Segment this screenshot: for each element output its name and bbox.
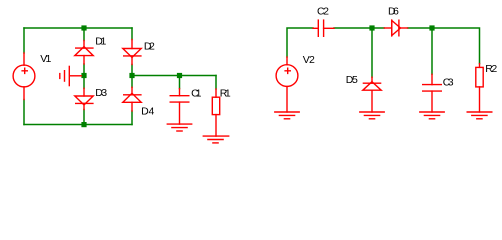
wire C1 top (179, 76, 181, 89)
wire C2 to node (334, 27, 372, 29)
svg-text:V2: V2 (303, 54, 315, 66)
diode D4 (123, 87, 141, 111)
diode D5 (363, 77, 381, 112)
wire D3 top (83, 76, 85, 89)
capacitor C2 (313, 20, 334, 36)
capacitor C1 (170, 89, 189, 125)
node mid-right junction (129, 73, 134, 78)
diode D6 (384, 20, 407, 36)
resistor R1 (212, 89, 219, 136)
ground R2 (467, 112, 492, 119)
node D6-C3 junction (429, 25, 434, 30)
wire D6 to node (408, 27, 432, 29)
ground C3 (420, 112, 444, 119)
wire left vertical upper (23, 28, 25, 53)
svg-text:C3: C3 (443, 76, 454, 88)
wire C3 top (431, 28, 433, 74)
node bottom junction (81, 122, 86, 127)
svg-text:V1: V1 (40, 53, 51, 65)
wire node to R2 corner (432, 28, 480, 64)
svg-text:R2: R2 (485, 63, 497, 75)
wire V2 top corner (287, 28, 313, 57)
ground D5 (360, 112, 384, 119)
wire bottom left loop (24, 124, 132, 126)
resistor R2 (476, 64, 483, 112)
wire D5 top (371, 28, 373, 77)
svg-text:D5: D5 (346, 74, 358, 86)
wire D4 bottom (131, 111, 133, 125)
svg-text:D1: D1 (95, 35, 106, 47)
wire D1 top (83, 28, 85, 41)
diode D2 (123, 40, 141, 65)
diode D3 (75, 88, 93, 109)
wire left vertical lower (23, 100, 25, 125)
wire D3 bottom (83, 110, 85, 125)
wire top left loop (24, 27, 132, 29)
wire node to D6 (372, 27, 384, 29)
ground R1 (203, 136, 228, 143)
diode D1 (75, 41, 93, 65)
svg-text:C2: C2 (317, 6, 329, 18)
svg-text:C1: C1 (191, 87, 202, 99)
svg-text:D2: D2 (144, 41, 155, 53)
svg-text:D3: D3 (95, 87, 107, 99)
wire R1 top (215, 76, 217, 90)
voltage source V2 (276, 57, 298, 112)
ground left tap (60, 66, 82, 85)
capacitor C3 (423, 74, 442, 112)
svg-text:D6: D6 (388, 6, 399, 18)
wire D1 bottom (83, 64, 85, 76)
node top junction (81, 25, 86, 30)
wire output mid (132, 75, 216, 77)
wire D2 top (131, 28, 133, 40)
node C1 tap junction (177, 73, 182, 78)
wire D4 top (131, 76, 133, 88)
node C2-D6 junction (369, 25, 374, 30)
voltage source V1 (13, 53, 35, 100)
wire D2 bottom (131, 65, 133, 76)
svg-text:R1: R1 (220, 87, 231, 99)
ground C1 (167, 124, 191, 131)
node mid-left junction (81, 73, 86, 78)
ground V2 (275, 112, 299, 119)
svg-text:D4: D4 (141, 105, 154, 117)
